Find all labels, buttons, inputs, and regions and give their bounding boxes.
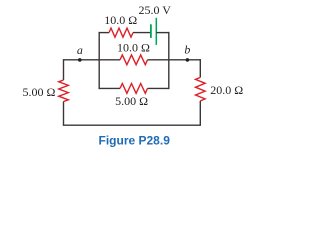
wire: main horizontal a-b wire right segment (148, 59, 201, 61)
wire: top branch from battery to right vertical (156, 32, 169, 34)
node a (78, 58, 82, 62)
wire: inner right vertical (168, 32, 170, 89)
battery 25.0 V : long positive plate (155, 18, 157, 45)
svg-text:10.0 Ω: 10.0 Ω (104, 13, 137, 27)
resistor R-left 5.00 ohm vertical zigzag (59, 80, 69, 102)
resistor R-middle 10.0 ohm zigzag on a-b wire (120, 55, 148, 65)
svg-text:b: b (184, 43, 190, 57)
wire: bottom outer wire (63, 124, 201, 126)
wire: right outer vertical lower segment (199, 101, 201, 125)
resistor R-innerbottom 5.00 ohm zigzag (120, 84, 148, 94)
wire: top branch left segment (99, 32, 110, 34)
svg-text:25.0 V: 25.0 V (138, 3, 171, 17)
resistor R-top 10.0 ohm zigzag (109, 28, 133, 37)
svg-text:a: a (77, 43, 83, 57)
svg-text:10.0 Ω: 10.0 Ω (117, 41, 150, 55)
node b (186, 58, 190, 62)
svg-text:5.00 Ω: 5.00 Ω (23, 85, 56, 99)
battery 25.0 V : short negative plate (150, 24, 152, 38)
wire: left outer vertical lower segment (63, 102, 65, 126)
wire: main horizontal a-b wire left segment (64, 59, 121, 61)
wire: top branch from resistor to battery (133, 32, 151, 34)
svg-text:5.00 Ω: 5.00 Ω (115, 94, 148, 108)
wire: inner bottom branch right segment (148, 87, 170, 89)
svg-text:Figure P28.9: Figure P28.9 (99, 134, 171, 148)
resistor R-right 20.0 ohm vertical zigzag (196, 77, 206, 101)
svg-text:20.0 Ω: 20.0 Ω (210, 83, 243, 97)
wire: inner left vertical (98, 32, 100, 89)
wire: inner bottom branch left segment (99, 87, 121, 89)
wire: left outer vertical upper segment (63, 59, 65, 80)
wire: right outer vertical upper segment (199, 59, 201, 77)
